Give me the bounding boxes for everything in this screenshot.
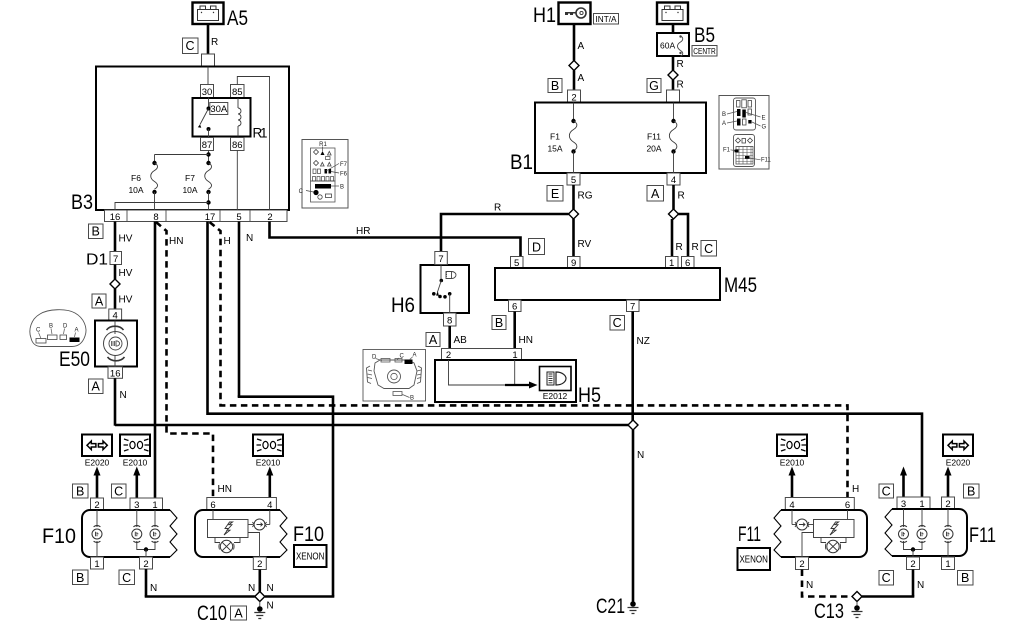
svg-text:G: G bbox=[649, 79, 659, 93]
pin 4 of B1 bbox=[667, 173, 680, 186]
connector label A (below E50) bbox=[89, 379, 104, 394]
svg-text:C: C bbox=[122, 571, 131, 585]
label INT/A bbox=[594, 14, 619, 25]
ground C21 bbox=[596, 594, 639, 618]
wire HV splice to E50 bbox=[115, 289, 133, 309]
bulb in F10 (position lamp) bbox=[92, 526, 102, 543]
svg-text:30: 30 bbox=[202, 87, 213, 98]
svg-text:C: C bbox=[299, 189, 304, 195]
low beam icon E2010 right bbox=[777, 435, 807, 468]
wire A to B1 pin 2 bbox=[574, 71, 585, 91]
svg-text:D: D bbox=[63, 324, 68, 330]
svg-text:H: H bbox=[224, 236, 231, 247]
label CENTR bbox=[692, 46, 717, 57]
svg-text:B: B bbox=[340, 185, 344, 191]
svg-text:NZ: NZ bbox=[637, 336, 650, 347]
pin 85 bbox=[231, 85, 245, 98]
connector label G bbox=[647, 79, 661, 93]
svg-text:C: C bbox=[882, 571, 891, 585]
svg-text:15A: 15A bbox=[547, 144, 562, 154]
wire R splice to M45 pin 6 bbox=[678, 214, 699, 257]
F11 pin 1 bottom bbox=[942, 557, 955, 570]
relay R1 bbox=[193, 98, 268, 141]
svg-text:R1: R1 bbox=[253, 126, 268, 141]
leveling motor in xenon F10 bbox=[253, 519, 267, 530]
svg-text:D1: D1 bbox=[86, 252, 108, 269]
svg-text:17: 17 bbox=[205, 212, 216, 223]
svg-text:2: 2 bbox=[267, 212, 272, 223]
splice N / NZ to C21 bbox=[628, 420, 638, 430]
svg-text:C13: C13 bbox=[814, 599, 844, 623]
svg-text:8: 8 bbox=[447, 316, 452, 327]
wire RV splice to M45 pin 9 bbox=[574, 219, 592, 257]
pin 4 of E50 bbox=[109, 309, 122, 322]
svg-text:F7: F7 bbox=[340, 162, 348, 168]
wire N F10 pin2 to C10 bbox=[145, 569, 255, 597]
svg-text:RG: RG bbox=[578, 191, 593, 202]
arrow to E2020 from F10 pin 2 bbox=[94, 467, 101, 498]
M45 top pin 9 bbox=[568, 257, 581, 270]
svg-text:B: B bbox=[967, 484, 975, 498]
svg-text:7: 7 bbox=[438, 254, 443, 265]
connector at B1 entry bbox=[667, 90, 680, 103]
pin 16 of E50 bbox=[108, 367, 123, 380]
xenon F11 pins 4/6 top strip bbox=[785, 498, 854, 511]
xenon burner lamp in F10 bbox=[219, 540, 234, 552]
svg-text:N: N bbox=[248, 583, 255, 594]
fuse 60A bbox=[657, 33, 689, 57]
wire R to B1 bbox=[673, 80, 684, 91]
svg-text:HV: HV bbox=[119, 295, 133, 306]
bulb in F11 (low beam right) bbox=[899, 526, 909, 543]
svg-text:A: A bbox=[429, 333, 438, 347]
svg-text:6: 6 bbox=[512, 302, 517, 313]
svg-text:F6: F6 bbox=[340, 172, 348, 178]
connector label B (H1 feed) bbox=[548, 79, 562, 93]
low beam icon E2010 left bbox=[120, 435, 150, 468]
connector label C (F11 top) bbox=[879, 484, 894, 498]
ground C10 bbox=[197, 601, 274, 625]
connector label B (M45 pin 6 wire) bbox=[492, 316, 506, 330]
pin 86 bbox=[231, 138, 245, 151]
svg-text:E2010: E2010 bbox=[780, 458, 805, 468]
svg-text:N: N bbox=[267, 601, 274, 612]
svg-text:R: R bbox=[678, 191, 685, 202]
wire N B3 pin5 to C10 rail bbox=[238, 222, 333, 597]
connector label A (C10) bbox=[231, 606, 247, 620]
wire N dashed xenon F11 to C13 bbox=[802, 570, 851, 597]
M45 top pin 1 bbox=[666, 257, 679, 270]
B3 pin row bbox=[105, 210, 288, 223]
svg-text:M45: M45 bbox=[724, 273, 757, 297]
svg-text:R1: R1 bbox=[319, 142, 327, 148]
svg-text:R: R bbox=[692, 242, 699, 253]
svg-text:16: 16 bbox=[110, 212, 121, 223]
svg-text:E2020: E2020 bbox=[85, 458, 110, 468]
arrow to E2020 from F11 pin 2 bbox=[945, 467, 952, 498]
turn indicator icon E2020 left bbox=[82, 435, 112, 468]
M45 top pin 5 bbox=[511, 257, 524, 270]
svg-text:HR: HR bbox=[356, 226, 370, 237]
svg-text:AB: AB bbox=[454, 335, 468, 346]
wire F7 junction to pin 16 bbox=[115, 200, 211, 210]
wire A from H1 bbox=[574, 24, 585, 61]
E2012 headlamp icon in H5 bbox=[540, 367, 572, 402]
connector label C (F11 bottom) bbox=[879, 571, 894, 586]
wire HR from B3 pin 2 to M45 pin 5 bbox=[270, 222, 521, 257]
svg-text:1: 1 bbox=[945, 559, 950, 570]
svg-text:B5: B5 bbox=[694, 23, 715, 47]
inset connector faces (B1) bbox=[719, 96, 772, 170]
svg-text:F11: F11 bbox=[647, 132, 661, 142]
svg-text:C: C bbox=[114, 484, 123, 498]
splice C10 bbox=[255, 592, 265, 602]
F10 pin 2 top bbox=[91, 498, 104, 511]
svg-text:C10: C10 bbox=[197, 601, 227, 625]
wire N F11 pin2 to C13 bbox=[862, 570, 924, 597]
svg-text:RV: RV bbox=[578, 239, 592, 250]
svg-text:A: A bbox=[651, 187, 660, 201]
headlamp unit F11 right bbox=[885, 509, 996, 557]
wire 30 feed inside B3 bbox=[207, 67, 209, 86]
svg-text:HN: HN bbox=[218, 484, 232, 495]
svg-text:XENON: XENON bbox=[296, 552, 325, 563]
svg-text:N: N bbox=[267, 583, 274, 594]
connector label B (F11 bottom) bbox=[958, 571, 974, 586]
svg-text:A: A bbox=[722, 121, 726, 127]
xenon F10 pins 6/4 top strip bbox=[207, 498, 277, 511]
pin 2 of B1 bbox=[568, 90, 581, 103]
svg-text:30A: 30A bbox=[210, 104, 228, 115]
svg-text:B: B bbox=[722, 112, 726, 118]
svg-text:G: G bbox=[762, 125, 767, 131]
splice on R bbox=[668, 70, 678, 80]
svg-text:E: E bbox=[551, 187, 559, 201]
svg-text:5: 5 bbox=[236, 212, 241, 223]
svg-text:E2010: E2010 bbox=[123, 458, 148, 468]
svg-text:D: D bbox=[372, 355, 377, 361]
svg-text:F11: F11 bbox=[969, 523, 996, 547]
F11 pin 2 bottom bbox=[907, 557, 920, 570]
svg-text:8: 8 bbox=[153, 212, 158, 223]
svg-text:R: R bbox=[494, 203, 501, 214]
svg-text:F10: F10 bbox=[42, 524, 76, 548]
xenon F10 pin 2 bottom bbox=[253, 557, 266, 570]
wire H dashed B3 pin17 to xenon F11 pin 6 bbox=[210, 222, 860, 498]
svg-text:F1: F1 bbox=[723, 148, 731, 154]
svg-text:A: A bbox=[578, 73, 585, 84]
svg-text:H6: H6 bbox=[391, 293, 415, 317]
svg-text:87: 87 bbox=[202, 140, 213, 151]
xenon F11 pin 2 bottom bbox=[796, 557, 809, 570]
fuse box B1 bbox=[510, 103, 706, 175]
wire NZ M45 pin7 to splice bbox=[633, 312, 650, 422]
pin 30 bbox=[201, 85, 214, 98]
xenon ballast in F10 bbox=[208, 520, 249, 543]
wire AB H6 to H5 pin 2 bbox=[450, 326, 467, 349]
F10 pins 3/1 top strip bbox=[130, 498, 163, 511]
svg-text:4: 4 bbox=[671, 175, 676, 186]
svg-text:HN: HN bbox=[169, 236, 183, 247]
connector label B (F11 top) bbox=[964, 484, 980, 498]
wire N xenon F10 pin2 to C10 bbox=[248, 570, 260, 595]
connector D1 pin 7 bbox=[86, 252, 122, 269]
svg-text:B3: B3 bbox=[71, 190, 93, 214]
svg-text:R: R bbox=[677, 59, 684, 70]
bulb in F10 (high beam left) bbox=[150, 526, 160, 543]
svg-text:2: 2 bbox=[143, 559, 148, 570]
svg-text:H1: H1 bbox=[533, 3, 556, 27]
arrow to E2010 from xenon F10 pin 4 bbox=[266, 467, 273, 498]
svg-text:B: B bbox=[76, 484, 84, 498]
svg-text:B: B bbox=[92, 225, 100, 239]
headlamp adjuster E50 bbox=[59, 321, 137, 372]
svg-text:85: 85 bbox=[232, 87, 243, 98]
control unit B3 bbox=[71, 67, 289, 215]
svg-text:HV: HV bbox=[119, 268, 133, 279]
svg-text:CENTR: CENTR bbox=[693, 46, 716, 56]
connector label C (M45 pin 6) bbox=[701, 241, 717, 257]
wire HN solid B3 pin8 to F10 pin 1 bbox=[155, 222, 183, 498]
low beam icon E2010 above xenon F10 bbox=[253, 435, 283, 468]
svg-text:C21: C21 bbox=[596, 594, 625, 618]
svg-text:B: B bbox=[961, 571, 969, 585]
xenon headlamp unit F10 bbox=[195, 510, 324, 557]
H5 pin strip bbox=[442, 349, 522, 362]
svg-text:B: B bbox=[76, 571, 84, 585]
svg-text:C: C bbox=[613, 316, 622, 330]
connector label C (M45 pin 7 wire) bbox=[610, 316, 625, 331]
svg-text:2: 2 bbox=[257, 559, 262, 570]
svg-text:F11: F11 bbox=[738, 522, 761, 546]
svg-text:16: 16 bbox=[110, 368, 121, 379]
svg-text:10A: 10A bbox=[128, 185, 143, 195]
svg-text:N: N bbox=[917, 580, 924, 591]
svg-text:R: R bbox=[211, 37, 218, 48]
connector label A (H6 pin 8) bbox=[426, 333, 440, 347]
wire H solid B3 pin17 to F11 pin 1 bbox=[208, 222, 923, 498]
svg-text:B: B bbox=[551, 79, 559, 93]
wire 86 to pin 5 bbox=[236, 151, 238, 211]
connector label B (F10 top) bbox=[73, 484, 89, 498]
pin 5 of B1 bbox=[567, 173, 580, 186]
M45 bottom pin 7 bbox=[627, 300, 640, 313]
svg-text:C: C bbox=[704, 242, 713, 256]
svg-text:E2020: E2020 bbox=[946, 458, 971, 468]
H6 pin 8 bbox=[444, 313, 457, 327]
inset fuse-relay layout near B3 bbox=[299, 140, 348, 209]
svg-text:B: B bbox=[410, 396, 414, 402]
wire N splice to C21 bbox=[633, 430, 644, 604]
fuse F1 15A bbox=[547, 103, 576, 174]
svg-text:A: A bbox=[95, 294, 104, 308]
leveling motor in xenon F11 bbox=[795, 519, 809, 530]
wire 85 to pin 2 bbox=[237, 77, 269, 211]
svg-text:F10: F10 bbox=[293, 522, 324, 546]
svg-text:A: A bbox=[92, 380, 101, 394]
connector label A (B1 pin 4) bbox=[647, 186, 664, 202]
svg-text:E50: E50 bbox=[59, 347, 90, 371]
svg-text:N: N bbox=[150, 583, 157, 594]
oval connector inset (E50) bbox=[30, 310, 86, 347]
connector label B (B3 pin 16) bbox=[89, 224, 104, 239]
wire HV B3 pin16 to D1 bbox=[115, 222, 133, 252]
arrow to E2010v from F11 pin 3 bbox=[900, 467, 907, 498]
unit H5 bbox=[435, 360, 601, 407]
svg-text:N: N bbox=[120, 390, 127, 401]
xenon headlamp unit F11 bbox=[738, 510, 867, 557]
svg-text:C: C bbox=[882, 484, 891, 498]
arrow to E2010 from F10 pin 3 bbox=[133, 467, 140, 498]
wire B5 to fuse bbox=[672, 24, 675, 33]
F11 pins 3/1 top strip bbox=[897, 497, 930, 510]
wire N from E50 to C21 rail bbox=[115, 378, 630, 425]
connector label C (F10 bottom) bbox=[119, 570, 135, 585]
svg-text:E: E bbox=[762, 116, 766, 122]
svg-text:20A: 20A bbox=[646, 144, 661, 154]
splice on HV bbox=[110, 279, 120, 289]
svg-text:XENON: XENON bbox=[739, 555, 768, 566]
svg-text:5: 5 bbox=[571, 175, 576, 186]
M45 top pin 6 bbox=[682, 257, 695, 270]
svg-text:F6: F6 bbox=[131, 173, 141, 183]
svg-text:R: R bbox=[677, 80, 684, 91]
svg-text:R: R bbox=[676, 242, 683, 253]
wire R splice to M45 pin 1 bbox=[672, 219, 683, 257]
ignition switch H1 bbox=[533, 3, 591, 28]
svg-text:7: 7 bbox=[113, 254, 118, 265]
svg-text:C: C bbox=[185, 39, 194, 53]
svg-text:7: 7 bbox=[630, 302, 635, 313]
connector label E bbox=[547, 186, 563, 202]
F11 pin 2 top bbox=[942, 497, 955, 510]
bulb in F11 (position lamp right) bbox=[943, 526, 953, 543]
connector label B (F10 bottom) bbox=[73, 570, 89, 585]
bulb in F10 (low beam left) bbox=[132, 526, 142, 543]
connector at B3 entry bbox=[202, 54, 215, 67]
svg-text:N: N bbox=[806, 580, 813, 591]
F10 pin 1 bottom bbox=[91, 557, 104, 570]
svg-text:B: B bbox=[495, 316, 503, 330]
svg-text:D: D bbox=[532, 240, 541, 254]
svg-text:60A: 60A bbox=[660, 41, 675, 51]
svg-text:2: 2 bbox=[910, 559, 915, 570]
svg-text:C: C bbox=[400, 354, 405, 360]
headlamp unit F10 left bbox=[42, 510, 177, 557]
fuse F6 10A bbox=[128, 161, 157, 210]
ground C13 bbox=[814, 599, 863, 623]
component illustration inset (H6) bbox=[363, 350, 426, 402]
battery B5 bbox=[657, 3, 715, 48]
svg-text:1: 1 bbox=[94, 559, 99, 570]
wire HV D1 to splice bbox=[115, 265, 133, 280]
M45 bottom pin 6 bbox=[509, 300, 522, 313]
connector label A (above E50) bbox=[92, 294, 106, 308]
control unit M45 bbox=[495, 268, 757, 300]
wire 87 to fuses bbox=[155, 129, 211, 163]
splice on A bbox=[569, 61, 579, 71]
xenon burner lamp in F11 bbox=[825, 540, 840, 552]
svg-text:N: N bbox=[246, 233, 253, 244]
arrow to E2010 from xenon F11 pin 4 bbox=[789, 467, 796, 498]
svg-text:F1: F1 bbox=[550, 132, 560, 142]
svg-text:2: 2 bbox=[799, 559, 804, 570]
svg-text:A5: A5 bbox=[227, 6, 248, 30]
svg-text:HN: HN bbox=[519, 335, 533, 346]
svg-text:F7: F7 bbox=[185, 173, 195, 183]
svg-text:A: A bbox=[413, 353, 417, 359]
svg-text:A: A bbox=[75, 328, 79, 334]
wire HN dashed B3 pin8 to xenon F10 pin 6 bbox=[156, 222, 232, 498]
svg-text:B1: B1 bbox=[510, 150, 533, 174]
fuse F7 10A bbox=[182, 161, 211, 210]
label XENON (F10) bbox=[294, 545, 327, 567]
bulb in F11 (high beam right) bbox=[917, 526, 927, 543]
F10 pin 2 bottom bbox=[140, 557, 153, 570]
connector label C (F10 top) bbox=[112, 484, 127, 498]
turn indicator icon E2020 right bbox=[943, 435, 973, 468]
svg-text:E2012: E2012 bbox=[543, 391, 568, 401]
connector label D (M45 pin 5) bbox=[529, 239, 545, 255]
svg-text:H: H bbox=[852, 484, 859, 495]
battery A5 bbox=[193, 3, 249, 31]
wire R from B1 pin 4 bbox=[674, 185, 685, 209]
svg-text:N: N bbox=[637, 450, 644, 461]
splice C13 bbox=[852, 592, 862, 602]
wire R from A5 to B3 bbox=[208, 24, 218, 54]
pin 87 bbox=[201, 138, 214, 151]
wire RG from B1 pin 5 bbox=[574, 185, 593, 209]
splice RG/R/RV bbox=[569, 209, 579, 219]
svg-text:F11: F11 bbox=[761, 158, 772, 164]
svg-text:HV: HV bbox=[119, 234, 133, 245]
wire N right rail to C10 bbox=[265, 583, 335, 597]
switch H6 bbox=[391, 265, 469, 317]
wire R splice to H6 pin 7 bbox=[441, 203, 569, 252]
svg-text:A: A bbox=[578, 41, 585, 52]
svg-text:E2010: E2010 bbox=[256, 458, 281, 468]
fuse F11 20A bbox=[646, 103, 676, 174]
label XENON (F11) bbox=[738, 548, 771, 570]
svg-text:A: A bbox=[234, 606, 243, 620]
splice R to M45 pins 1 and 6 bbox=[669, 209, 679, 219]
svg-text:INT/A: INT/A bbox=[596, 14, 617, 24]
wire HN M45 pin6 to H5 pin 1 bbox=[515, 312, 533, 349]
svg-text:10A: 10A bbox=[182, 185, 197, 195]
svg-text:86: 86 bbox=[232, 140, 243, 151]
H6 pin 7 bbox=[435, 252, 448, 266]
wire R from fuse bbox=[673, 56, 684, 70]
xenon ballast in F11 bbox=[814, 520, 855, 543]
svg-text:H5: H5 bbox=[578, 383, 601, 407]
connector label C bbox=[183, 38, 199, 54]
